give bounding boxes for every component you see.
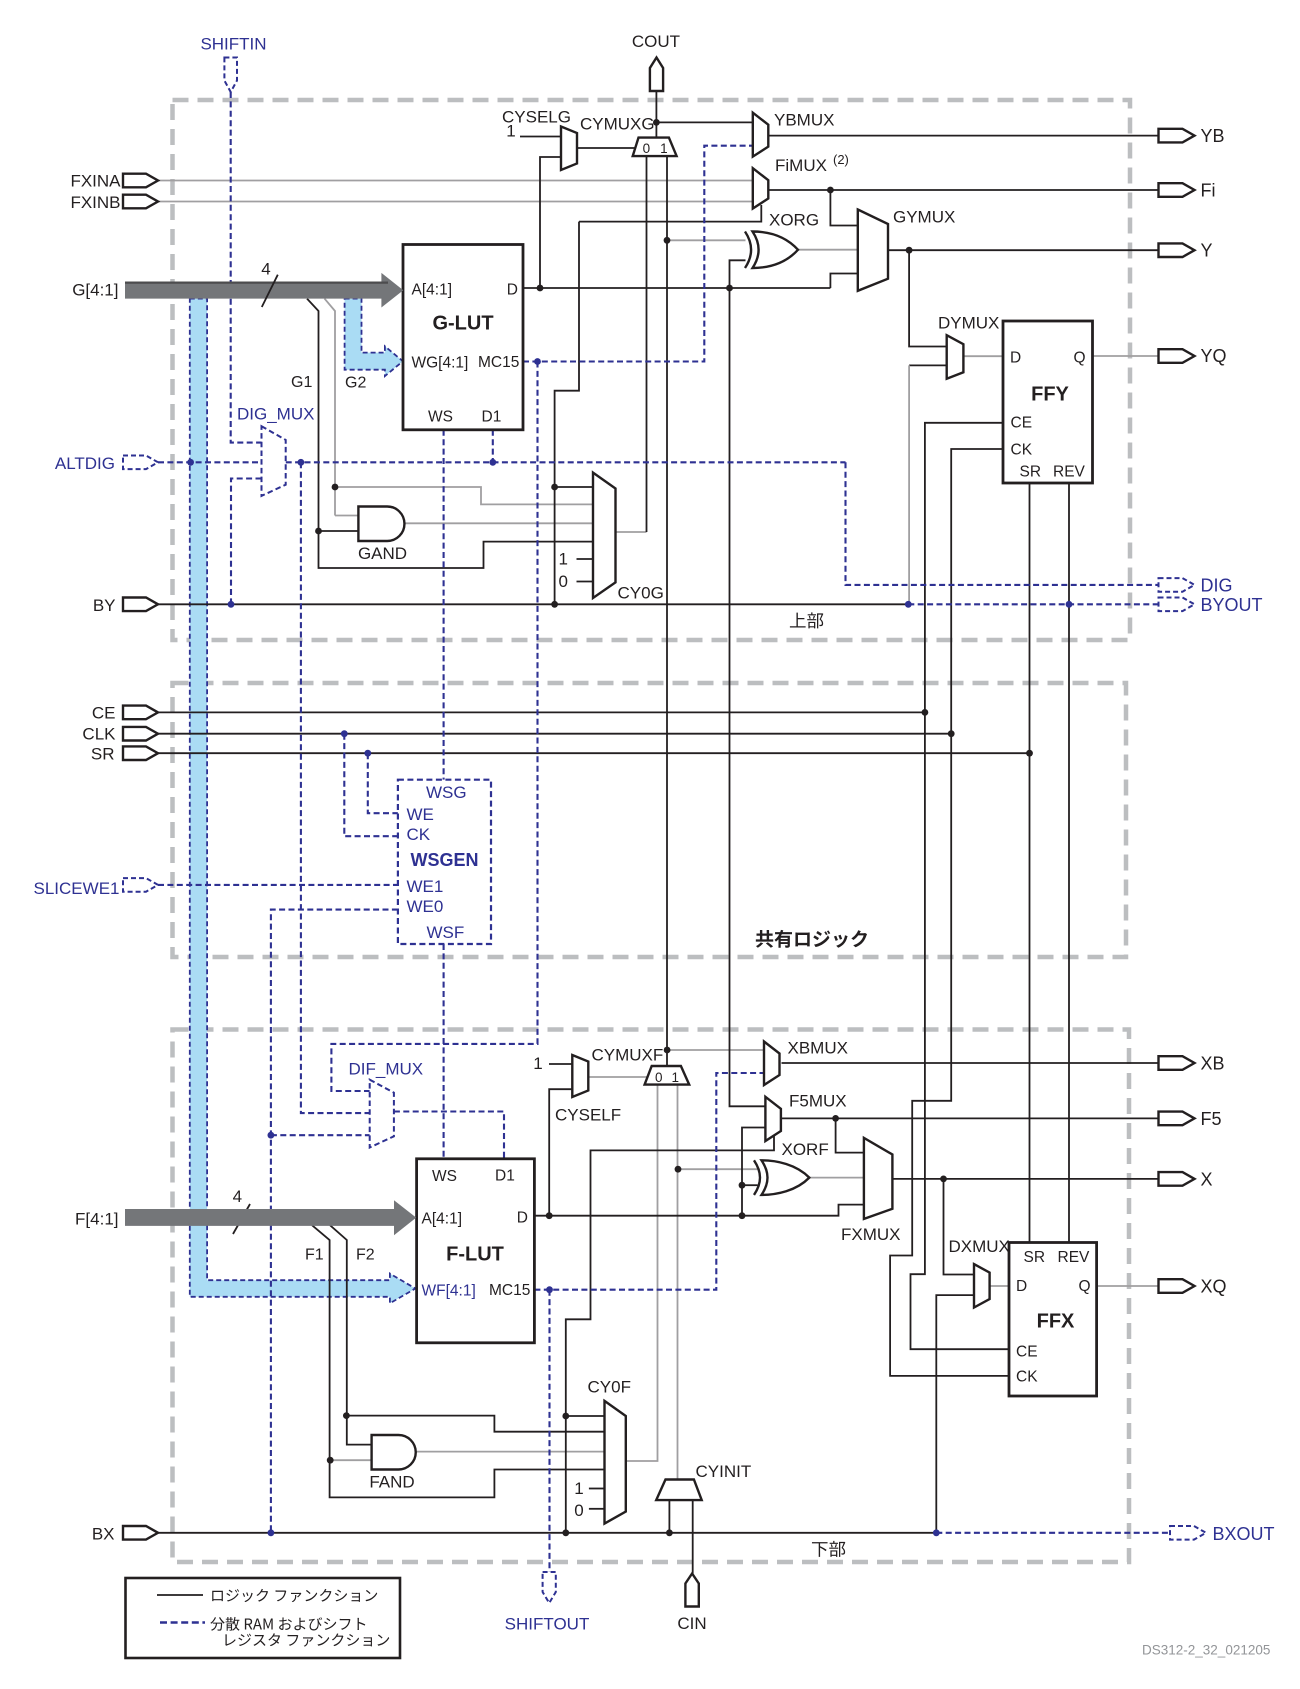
svg-text:FiMUX: FiMUX (775, 156, 827, 175)
svg-text:DIF_MUX: DIF_MUX (349, 1060, 424, 1079)
svg-text:CY0G: CY0G (618, 584, 664, 603)
svg-text:DIG_MUX: DIG_MUX (237, 405, 314, 424)
svg-text:WE0: WE0 (407, 897, 444, 916)
svg-text:1: 1 (506, 122, 515, 141)
svg-text:XQ: XQ (1201, 1277, 1227, 1297)
svg-text:COUT: COUT (632, 32, 680, 51)
svg-text:WSG: WSG (426, 783, 467, 802)
svg-text:SR: SR (91, 745, 115, 764)
svg-text:Q: Q (1078, 1278, 1090, 1295)
svg-text:MC15: MC15 (489, 1282, 530, 1299)
svg-text:CK: CK (407, 825, 431, 844)
svg-text:XORF: XORF (782, 1140, 829, 1159)
svg-text:F-LUT: F-LUT (446, 1244, 504, 1266)
svg-text:REV: REV (1058, 1249, 1091, 1266)
svg-text:WS: WS (432, 1168, 457, 1185)
svg-text:0: 0 (574, 1501, 583, 1520)
svg-text:GYMUX: GYMUX (893, 208, 955, 227)
svg-text:ALTDIG: ALTDIG (55, 454, 115, 473)
svg-text:4: 4 (233, 1187, 242, 1206)
svg-text:XORG: XORG (769, 211, 819, 230)
svg-text:1: 1 (660, 141, 668, 156)
svg-text:0: 0 (559, 572, 568, 591)
svg-text:D: D (1010, 350, 1021, 367)
svg-text:CIN: CIN (677, 1614, 706, 1633)
svg-text:FXINA: FXINA (70, 172, 121, 191)
svg-text:D1: D1 (482, 409, 502, 426)
svg-text:Fi: Fi (1201, 181, 1216, 201)
svg-text:D1: D1 (495, 1168, 515, 1185)
svg-text:REV: REV (1053, 464, 1086, 481)
svg-text:X: X (1201, 1170, 1213, 1190)
svg-text:D: D (1016, 1278, 1027, 1295)
svg-text:4: 4 (261, 260, 270, 279)
svg-text:CE: CE (92, 704, 116, 723)
svg-text:1: 1 (574, 1479, 583, 1498)
svg-text:SR: SR (1020, 464, 1042, 481)
svg-text:CYMUXG: CYMUXG (580, 115, 655, 134)
svg-text:Q: Q (1073, 350, 1085, 367)
svg-text:YB: YB (1201, 126, 1225, 146)
svg-text:DIG: DIG (1201, 576, 1233, 596)
svg-text:FAND: FAND (369, 1473, 414, 1492)
svg-text:CY0F: CY0F (588, 1378, 631, 1397)
svg-text:YQ: YQ (1201, 346, 1227, 366)
svg-text:WF[4:1]: WF[4:1] (422, 1283, 476, 1300)
svg-text:SHIFTIN: SHIFTIN (200, 35, 266, 54)
svg-text:CE: CE (1011, 415, 1033, 432)
svg-text:CLK: CLK (82, 725, 116, 744)
svg-text:XB: XB (1201, 1054, 1225, 1074)
svg-text:BY: BY (93, 596, 116, 615)
svg-text:G-LUT: G-LUT (432, 313, 493, 335)
svg-text:A[4:1]: A[4:1] (422, 1211, 463, 1228)
svg-text:CYMUXF: CYMUXF (592, 1046, 664, 1065)
svg-text:DYMUX: DYMUX (938, 314, 999, 333)
svg-text:F5: F5 (1201, 1109, 1222, 1129)
svg-text:(2): (2) (833, 152, 849, 167)
svg-text:FXMUX: FXMUX (841, 1225, 901, 1244)
svg-text:F5MUX: F5MUX (789, 1092, 847, 1111)
svg-text:WG[4:1]: WG[4:1] (412, 355, 469, 372)
svg-text:SLICEWE1: SLICEWE1 (34, 879, 120, 898)
svg-text:1: 1 (559, 550, 568, 569)
svg-text:Y: Y (1201, 241, 1213, 261)
svg-text:CK: CK (1011, 442, 1033, 459)
svg-text:XBMUX: XBMUX (788, 1039, 848, 1058)
svg-text:DXMUX: DXMUX (949, 1237, 1010, 1256)
svg-text:YBMUX: YBMUX (774, 111, 834, 130)
svg-text:SR: SR (1024, 1249, 1046, 1266)
svg-text:FXINB: FXINB (70, 193, 120, 212)
svg-text:FFX: FFX (1037, 1311, 1075, 1333)
svg-text:F[4:1]: F[4:1] (75, 1210, 118, 1229)
svg-text:FFY: FFY (1031, 384, 1069, 406)
svg-text:BYOUT: BYOUT (1201, 595, 1263, 615)
svg-text:WSGEN: WSGEN (411, 850, 479, 870)
svg-text:CE: CE (1016, 1344, 1038, 1361)
svg-text:SHIFTOUT: SHIFTOUT (505, 1615, 590, 1634)
svg-text:1: 1 (533, 1054, 542, 1073)
svg-text:WE: WE (407, 805, 434, 824)
svg-text:WE1: WE1 (407, 877, 444, 896)
svg-text:WS: WS (428, 409, 453, 426)
svg-text:F1: F1 (305, 1247, 324, 1264)
svg-text:CYSELF: CYSELF (555, 1106, 621, 1125)
svg-text:A[4:1]: A[4:1] (412, 282, 453, 299)
svg-text:D: D (507, 282, 518, 299)
svg-text:DS312-2_32_021205: DS312-2_32_021205 (1142, 1643, 1270, 1658)
svg-text:MC15: MC15 (478, 354, 519, 371)
svg-text:WSF: WSF (427, 923, 465, 942)
svg-text:CK: CK (1016, 1369, 1038, 1386)
svg-text:0: 0 (655, 1070, 663, 1085)
svg-text:CYINIT: CYINIT (696, 1462, 752, 1481)
svg-text:BX: BX (92, 1525, 115, 1544)
svg-text:D: D (517, 1210, 528, 1227)
svg-text:1: 1 (672, 1070, 680, 1085)
svg-text:0: 0 (643, 141, 651, 156)
svg-text:GAND: GAND (358, 544, 407, 563)
svg-text:BXOUT: BXOUT (1213, 1524, 1275, 1544)
svg-text:G1: G1 (291, 374, 312, 391)
svg-text:F2: F2 (356, 1247, 375, 1264)
svg-text:G2: G2 (345, 375, 366, 392)
svg-text:G[4:1]: G[4:1] (72, 281, 118, 300)
